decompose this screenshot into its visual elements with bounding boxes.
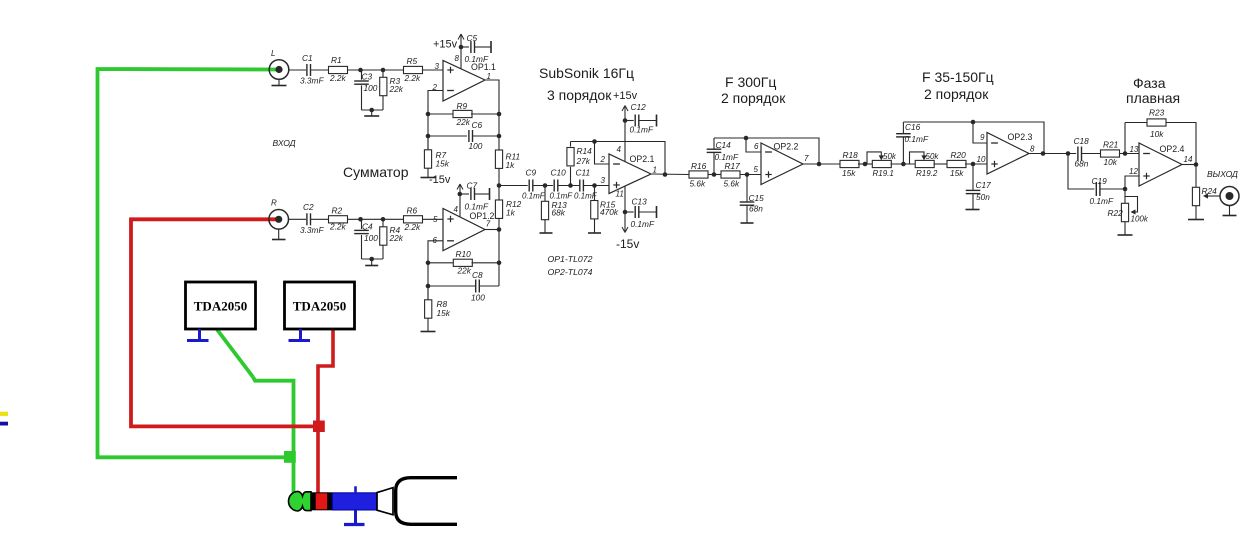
resistor R4 22k bbox=[380, 219, 404, 259]
jack separator band bbox=[311, 492, 315, 510]
svg-text:C5: C5 bbox=[467, 33, 478, 43]
node junction bbox=[497, 112, 502, 117]
wire bbox=[583, 185, 609, 187]
op-amp OP2.3 bbox=[977, 132, 1036, 174]
wire feedback rail OP2.3 bbox=[903, 122, 1044, 154]
resistor R6 2.2k bbox=[404, 206, 423, 233]
capacitor C6 100 feedback bbox=[428, 120, 499, 151]
node junction C19 branch bbox=[1066, 151, 1071, 156]
label Фаза bbox=[1133, 75, 1166, 91]
svg-text:0.1mF: 0.1mF bbox=[465, 202, 489, 212]
resistor R5 2.2k bbox=[404, 56, 423, 83]
svg-text:C16: C16 bbox=[905, 122, 921, 132]
svg-text:OP2-TL074: OP2-TL074 bbox=[548, 267, 593, 277]
wire bbox=[423, 218, 444, 220]
node output junction bbox=[1194, 162, 1199, 167]
svg-text:50k: 50k bbox=[883, 152, 897, 161]
capacitor C4 100 bbox=[354, 219, 378, 259]
connector R RCA input bbox=[269, 199, 289, 230]
svg-text:22k: 22k bbox=[457, 266, 472, 276]
node output junction bbox=[663, 172, 668, 177]
svg-text:3: 3 bbox=[601, 176, 606, 185]
svg-text:OP1.2: OP1.2 bbox=[470, 211, 495, 221]
svg-text:+15v: +15v bbox=[433, 39, 458, 51]
capacitor C10 0.1mF bbox=[550, 168, 574, 201]
resistor R17 5.6k bbox=[721, 161, 740, 189]
svg-text:0.1mF: 0.1mF bbox=[905, 134, 929, 144]
svg-text:C9: C9 bbox=[526, 168, 537, 178]
svg-text:6: 6 bbox=[754, 142, 759, 151]
svg-text:ВЫХОД: ВЫХОД bbox=[1207, 169, 1238, 179]
svg-text:3: 3 bbox=[435, 62, 440, 71]
svg-text:C19: C19 bbox=[1092, 176, 1108, 186]
ground under C3 R3 bbox=[364, 110, 379, 116]
jack ground blue bbox=[344, 486, 365, 524]
label ВЫХОД bbox=[1207, 169, 1238, 179]
node green wire junction square bbox=[284, 451, 296, 463]
wire output OP2.3 bbox=[1029, 153, 1076, 155]
wire inverting input OP2.3 bbox=[973, 122, 987, 143]
node junction pin6 rail bbox=[744, 136, 749, 141]
wire output OP1.1 bbox=[485, 80, 499, 150]
svg-text:15k: 15k bbox=[950, 168, 964, 178]
svg-text:R22: R22 bbox=[1108, 208, 1124, 218]
svg-text:SubSonik 16Гц: SubSonik 16Гц bbox=[539, 65, 634, 81]
ground under R22 bbox=[1118, 222, 1133, 235]
svg-text:11: 11 bbox=[616, 190, 624, 199]
svg-text:TDA2050: TDA2050 bbox=[194, 299, 247, 314]
svg-text:R2: R2 bbox=[332, 206, 343, 216]
node junction pin2 rail bbox=[592, 139, 597, 144]
svg-text:F 35-150Гц: F 35-150Гц bbox=[922, 69, 994, 85]
block TDA2050 right bbox=[285, 282, 355, 329]
capacitor C18 68n bbox=[1074, 136, 1090, 169]
node junction bbox=[568, 183, 573, 188]
svg-text:2.2k: 2.2k bbox=[404, 222, 422, 232]
wire feedback rail OP2.1 bbox=[571, 142, 666, 175]
capacitor C11 0.1mF bbox=[574, 168, 598, 201]
label OP1-TL072 bbox=[548, 254, 593, 264]
svg-text:R17: R17 bbox=[725, 161, 741, 171]
wire bbox=[1100, 188, 1125, 190]
node power junction bbox=[623, 118, 628, 123]
wire bbox=[934, 163, 949, 165]
svg-text:100k: 100k bbox=[1131, 215, 1149, 224]
node power junction bbox=[458, 192, 463, 197]
wire noninverting input OP2.4 bbox=[1125, 176, 1139, 189]
power +15v arrow OP2.1 bbox=[613, 90, 638, 162]
node junction bbox=[358, 217, 363, 222]
ground under R7 bbox=[421, 168, 436, 177]
svg-text:100: 100 bbox=[471, 293, 485, 303]
svg-text:TDA2050: TDA2050 bbox=[293, 299, 346, 314]
resistor R13 68k bbox=[541, 186, 567, 234]
trimmer R22 100k bbox=[1108, 189, 1149, 224]
node power junction bbox=[459, 45, 464, 50]
jack ring red bbox=[315, 493, 327, 510]
svg-text:C18: C18 bbox=[1074, 136, 1090, 146]
svg-text:8: 8 bbox=[1030, 145, 1035, 154]
svg-text:3 порядок: 3 порядок bbox=[547, 87, 612, 103]
svg-text:5: 5 bbox=[433, 215, 438, 224]
block TDA2050 left bbox=[186, 282, 256, 329]
capacitor C14 0.1mF bbox=[707, 138, 739, 175]
trimmer R19.2 50k bbox=[910, 152, 940, 178]
svg-text:50k: 50k bbox=[926, 152, 940, 161]
node junction bbox=[426, 134, 431, 139]
svg-text:15k: 15k bbox=[437, 308, 451, 318]
node junction bbox=[901, 162, 906, 167]
svg-text:13: 13 bbox=[1130, 145, 1139, 154]
svg-text:22k: 22k bbox=[389, 233, 404, 243]
ground under C17 bbox=[966, 209, 980, 211]
node junction bbox=[971, 162, 976, 167]
capacitor C9 0.1mF bbox=[522, 168, 546, 201]
svg-text:L: L bbox=[271, 49, 275, 58]
svg-text:0.1mF: 0.1mF bbox=[631, 219, 655, 229]
svg-text:C4: C4 bbox=[362, 222, 373, 232]
node junction bbox=[543, 183, 548, 188]
svg-text:C7: C7 bbox=[467, 181, 478, 191]
capacitor C12 0.1mF bbox=[625, 102, 657, 135]
resistor R18 15k bbox=[840, 150, 859, 178]
capacitor C5 0.1mF bbox=[461, 33, 491, 64]
svg-text:2: 2 bbox=[600, 155, 606, 164]
svg-text:C10: C10 bbox=[551, 168, 567, 178]
arrow wiper R24 bbox=[1203, 193, 1220, 198]
svg-text:R18: R18 bbox=[843, 150, 859, 160]
capacitor C15 68n bbox=[740, 175, 764, 224]
ground under R connector bbox=[272, 229, 286, 240]
svg-text:22k: 22k bbox=[456, 117, 471, 127]
resistor R9 22k feedback bbox=[428, 101, 499, 127]
wire bbox=[1120, 153, 1140, 155]
wire bbox=[965, 163, 987, 165]
op-amp OP2.1 bbox=[600, 145, 657, 199]
svg-text:R5: R5 bbox=[407, 56, 418, 66]
jack separator band 2 bbox=[328, 492, 333, 510]
svg-text:10: 10 bbox=[977, 155, 986, 164]
svg-text:4: 4 bbox=[617, 145, 622, 154]
svg-text:R6: R6 bbox=[407, 206, 418, 216]
wire bbox=[311, 218, 329, 220]
capacitor C8 100 feedback bbox=[428, 270, 499, 303]
resistor R21 10k bbox=[1101, 140, 1120, 168]
node red wire junction square bbox=[313, 421, 325, 433]
svg-text:C11: C11 bbox=[576, 168, 591, 178]
op-amp OP1.2 bbox=[433, 205, 495, 251]
svg-text:2.2k: 2.2k bbox=[329, 222, 347, 232]
svg-text:100: 100 bbox=[364, 233, 378, 243]
resistor R14 27k bbox=[567, 142, 592, 186]
wire to R24 bbox=[1195, 165, 1197, 188]
node junction bbox=[497, 261, 502, 266]
svg-text:10k: 10k bbox=[1150, 129, 1164, 139]
resistor R20 15k bbox=[947, 150, 966, 178]
svg-text:7: 7 bbox=[804, 154, 809, 163]
resistor R16 5.6k bbox=[689, 161, 708, 189]
svg-text:5.6k: 5.6k bbox=[724, 179, 741, 189]
svg-text:C3: C3 bbox=[362, 72, 373, 82]
wire bbox=[740, 174, 761, 176]
wire bbox=[289, 218, 307, 220]
capacitor C7 0.1mF bbox=[460, 181, 490, 212]
svg-text:5: 5 bbox=[754, 165, 759, 174]
svg-text:5.6k: 5.6k bbox=[690, 179, 707, 189]
mark dark blue bbox=[0, 422, 8, 426]
svg-text:2.2k: 2.2k bbox=[329, 73, 347, 83]
op-amp OP1.1 bbox=[432, 54, 497, 101]
label F 35-150Гц bbox=[922, 69, 994, 85]
label плавная bbox=[1126, 90, 1180, 106]
svg-text:10k: 10k bbox=[1104, 157, 1118, 167]
label 3 порядок bbox=[547, 87, 612, 103]
svg-text:22k: 22k bbox=[389, 84, 404, 94]
svg-text:R19.2: R19.2 bbox=[916, 169, 938, 178]
svg-text:C12: C12 bbox=[631, 102, 647, 112]
node junction pin12 bbox=[1123, 187, 1128, 192]
svg-text:2 порядок: 2 порядок bbox=[924, 86, 989, 102]
svg-text:100: 100 bbox=[469, 141, 483, 151]
wire C19 branch bbox=[1068, 154, 1094, 190]
node junction bbox=[426, 284, 431, 289]
svg-text:R16: R16 bbox=[691, 161, 707, 171]
svg-text:0.1mF: 0.1mF bbox=[522, 192, 546, 201]
wire bbox=[499, 185, 528, 187]
svg-text:OP2.4: OP2.4 bbox=[1160, 144, 1185, 154]
svg-text:68k: 68k bbox=[552, 208, 566, 218]
ground under output connector bbox=[1223, 206, 1237, 216]
wire bbox=[558, 185, 580, 187]
node junction bbox=[369, 257, 374, 262]
ground under R24 bbox=[1188, 206, 1204, 220]
resistor R8 15k bbox=[425, 286, 451, 318]
mark yellow bbox=[0, 412, 8, 416]
node output junction bbox=[1041, 151, 1046, 156]
power +15v arrow OP1.1 bbox=[433, 34, 464, 69]
resistor R11 1k bbox=[495, 150, 520, 170]
wire bbox=[348, 218, 405, 220]
power -15v arrow OP2.1 bbox=[616, 187, 639, 252]
svg-text:8: 8 bbox=[455, 54, 460, 63]
svg-text:R1: R1 bbox=[331, 55, 342, 65]
svg-text:27k: 27k bbox=[576, 156, 591, 166]
label 2 порядок bbox=[721, 90, 786, 106]
svg-text:R: R bbox=[271, 199, 277, 208]
wire bbox=[858, 163, 873, 165]
node junction bbox=[426, 112, 431, 117]
node junction bbox=[745, 172, 750, 177]
svg-text:C6: C6 bbox=[472, 120, 483, 130]
svg-text:68n: 68n bbox=[1075, 159, 1089, 169]
wire output OP1.2 bbox=[485, 229, 499, 231]
svg-text:1: 1 bbox=[653, 166, 657, 175]
node output junction bbox=[817, 162, 822, 167]
node output junction bbox=[497, 227, 502, 232]
wire output OP2.1 bbox=[651, 173, 689, 176]
wire bbox=[311, 69, 329, 71]
svg-text:C17: C17 bbox=[976, 180, 992, 190]
svg-text:ВХОД: ВХОД bbox=[273, 138, 296, 148]
svg-text:3.3mF: 3.3mF bbox=[300, 225, 324, 235]
capacitor C17 50n bbox=[966, 164, 991, 210]
svg-text:C1: C1 bbox=[302, 53, 313, 63]
label 2 порядок stage3 bbox=[924, 86, 989, 102]
capacitor C13 0.1mF bbox=[625, 197, 657, 230]
capacitor C2 3.3mF bbox=[300, 202, 324, 235]
jack body outline bbox=[396, 478, 457, 525]
resistor R10 22k feedback bbox=[428, 249, 499, 276]
svg-text:Фаза: Фаза bbox=[1133, 75, 1166, 91]
ground blue under TDA2050 right bbox=[289, 329, 311, 341]
svg-text:50n: 50n bbox=[976, 192, 990, 202]
wire inverting input OP1.1 bbox=[428, 91, 443, 151]
resistor R12 1k bbox=[495, 186, 521, 230]
wire bbox=[708, 174, 721, 176]
svg-text:R9: R9 bbox=[457, 101, 468, 111]
svg-text:1k: 1k bbox=[506, 208, 516, 218]
svg-text:OP2.3: OP2.3 bbox=[1008, 132, 1033, 142]
node junction bbox=[381, 217, 386, 222]
op-amp OP2.4 bbox=[1129, 143, 1193, 186]
wire inverting input OP2.1 bbox=[595, 142, 610, 165]
svg-text:14: 14 bbox=[1184, 155, 1193, 164]
connector L RCA input bbox=[269, 49, 289, 79]
svg-text:2.2k: 2.2k bbox=[404, 73, 422, 83]
label Сумматор bbox=[343, 164, 409, 180]
ground blue under TDA2050 left bbox=[187, 329, 209, 341]
node junction bbox=[497, 134, 502, 139]
label SubSonik 16Гц bbox=[539, 65, 634, 81]
svg-text:15k: 15k bbox=[436, 159, 450, 169]
svg-text:7: 7 bbox=[486, 220, 491, 229]
wire red right-channel input from jack ring to R connector bbox=[131, 219, 333, 494]
wire inverting input OP2.2 bbox=[746, 138, 761, 152]
label OP2-TL074 bbox=[548, 267, 593, 277]
node junction bbox=[369, 108, 374, 113]
node junction bbox=[863, 162, 868, 167]
svg-text:0.1mF: 0.1mF bbox=[465, 54, 489, 64]
ground under C15 bbox=[741, 222, 754, 224]
wire output rail bbox=[498, 230, 500, 287]
svg-text:1k: 1k bbox=[506, 160, 516, 170]
wire bbox=[498, 168, 500, 185]
svg-text:C2: C2 bbox=[303, 202, 314, 212]
svg-text:3.3mF: 3.3mF bbox=[300, 76, 324, 86]
svg-text:Сумматор: Сумматор bbox=[343, 164, 409, 180]
resistor R7 15k bbox=[424, 136, 449, 169]
svg-text:R19.1: R19.1 bbox=[873, 169, 894, 178]
node junction bbox=[712, 172, 717, 177]
svg-text:15k: 15k bbox=[842, 168, 856, 178]
label ВХОД bbox=[273, 138, 296, 148]
potentiometer R24 bbox=[1192, 186, 1217, 206]
ground under R8 bbox=[421, 318, 436, 331]
node junction bbox=[358, 68, 363, 73]
capacitor C1 3.3mF bbox=[300, 53, 324, 86]
svg-text:68n: 68n bbox=[749, 204, 763, 214]
svg-text:R23: R23 bbox=[1149, 108, 1165, 118]
svg-text:R24: R24 bbox=[1202, 186, 1218, 196]
svg-text:470k: 470k bbox=[600, 207, 619, 217]
wire feedback rail OP2.4 bbox=[1166, 123, 1196, 165]
ground under R15 bbox=[588, 232, 601, 234]
svg-text:12: 12 bbox=[1129, 167, 1138, 176]
ground under C4 R4 bbox=[365, 259, 378, 266]
capacitor C3 100 bbox=[354, 70, 378, 110]
svg-text:OP2.2: OP2.2 bbox=[774, 142, 799, 152]
power -15v arrow OP1.2 bbox=[429, 174, 463, 217]
node summing junction bbox=[497, 183, 502, 188]
node junction pin13 bbox=[1123, 151, 1128, 156]
wire output OP2.4 bbox=[1182, 164, 1196, 166]
resistor R3 22k bbox=[380, 70, 404, 110]
svg-text:4: 4 bbox=[454, 205, 459, 214]
wire bbox=[533, 185, 553, 187]
trimmer R19.1 50k bbox=[867, 152, 897, 178]
resistor R23 10k feedback bbox=[1147, 108, 1166, 140]
svg-text:R21: R21 bbox=[1103, 140, 1118, 150]
wire feedback rail OP2.2 bbox=[714, 138, 819, 164]
label F 300Гц bbox=[725, 74, 776, 90]
svg-text:2 порядок: 2 порядок bbox=[721, 90, 786, 106]
node junction bbox=[381, 68, 386, 73]
svg-text:C8: C8 bbox=[472, 270, 483, 280]
svg-text:F 300Гц: F 300Гц bbox=[725, 74, 776, 90]
node junction pin9 rail bbox=[971, 120, 976, 125]
svg-text:-15v: -15v bbox=[616, 237, 639, 251]
svg-text:OP1-TL072: OP1-TL072 bbox=[548, 254, 593, 264]
svg-text:9: 9 bbox=[980, 133, 985, 142]
op-amp OP2.2 bbox=[754, 142, 810, 185]
node junction pin3 bbox=[592, 183, 597, 188]
wire output OP2.2 bbox=[803, 163, 841, 165]
resistor R15 470k bbox=[591, 186, 619, 234]
capacitor C19 0.1mF bbox=[1090, 176, 1114, 206]
wire feedback to R23 bbox=[1125, 123, 1147, 154]
wire bbox=[423, 69, 444, 71]
svg-text:R10: R10 bbox=[456, 249, 472, 259]
svg-text:0.1mF: 0.1mF bbox=[630, 125, 654, 135]
wire bbox=[1082, 153, 1101, 155]
svg-text:плавная: плавная bbox=[1126, 90, 1180, 106]
capacitor C16 0.1mF bbox=[896, 122, 929, 164]
svg-text:C15: C15 bbox=[749, 193, 765, 203]
wire bbox=[348, 69, 405, 71]
svg-text:-15v: -15v bbox=[429, 174, 451, 186]
wire inverting input OP1.2 bbox=[428, 241, 443, 300]
svg-text:R14: R14 bbox=[577, 146, 593, 156]
svg-text:C14: C14 bbox=[716, 140, 732, 150]
svg-text:+15v: +15v bbox=[613, 90, 638, 102]
svg-text:R20: R20 bbox=[951, 150, 967, 160]
wire green left-channel input from jack tip to L connector bbox=[98, 69, 294, 494]
jack sleeve blue bbox=[332, 493, 377, 510]
connector ВЫХОД RCA output bbox=[1220, 187, 1239, 206]
svg-text:0.1mF: 0.1mF bbox=[1090, 196, 1114, 206]
resistor R1 2.2k bbox=[329, 55, 348, 83]
svg-text:100: 100 bbox=[364, 83, 378, 93]
wire bbox=[362, 109, 384, 111]
ground under L connector bbox=[272, 79, 287, 85]
jack collar white bbox=[377, 488, 393, 515]
jack tip green bbox=[289, 491, 311, 511]
node junction bbox=[426, 261, 431, 266]
wire bbox=[362, 258, 384, 260]
svg-text:C13: C13 bbox=[632, 197, 648, 207]
node power junction bbox=[623, 210, 628, 215]
resistor R2 2.2k bbox=[329, 206, 348, 232]
